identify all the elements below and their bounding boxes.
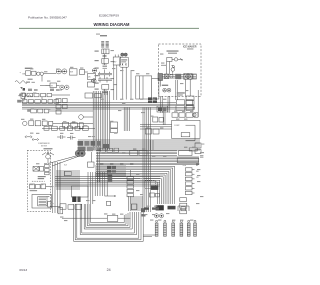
inline box B3 <box>107 201 111 205</box>
ice maker drop pairs <box>176 79 190 100</box>
ice maker connector CN2 <box>175 74 181 79</box>
ice maker sub label <box>187 48 193 49</box>
ice maker connector CN5 <box>193 74 196 79</box>
main horizontal bus <box>22 103 195 109</box>
connector row R4 <box>23 121 93 126</box>
label <box>30 190 37 191</box>
svg-text:WIRING DIAGRAM: WIRING DIAGRAM <box>94 22 131 27</box>
inline connector J10 <box>64 171 71 175</box>
header model number <box>99 13 119 17</box>
ice maker bottom labels <box>177 92 185 95</box>
sensor TH1 <box>26 82 57 88</box>
wire bundle <box>124 108 129 132</box>
connector P3 <box>156 205 164 210</box>
label <box>64 165 67 167</box>
connector chain CH1 <box>42 126 95 130</box>
wire drop <box>41 75 43 82</box>
harness top label <box>100 35 107 36</box>
svg-text:COMP: COMP <box>174 125 180 127</box>
harness label columns <box>101 41 109 47</box>
wire <box>166 59 179 74</box>
wire <box>104 89 107 95</box>
module M4 <box>158 74 163 87</box>
harness cross lines <box>95 166 126 176</box>
wire <box>114 65 117 100</box>
lamp L4 <box>65 85 69 89</box>
relay K3 <box>177 100 193 105</box>
compressor label <box>38 143 50 147</box>
terminal board TB3 <box>177 158 198 167</box>
defrost timer K5 <box>33 167 39 172</box>
svg-text:SW: SW <box>70 72 73 74</box>
svg-text:COMPRESSOR: COMPRESSOR <box>38 143 50 145</box>
connector chain CH3 <box>50 204 81 210</box>
capacitor C2 <box>67 136 75 140</box>
plug connector PC5 <box>187 220 190 236</box>
bracket <box>186 125 196 141</box>
connector T-bar J5 <box>98 70 112 79</box>
ice maker interior labels <box>161 65 166 66</box>
aux box B1 <box>58 208 63 214</box>
connector stack CS1 <box>107 166 116 182</box>
chain bottom bits <box>103 91 108 93</box>
stack J13 <box>180 198 187 214</box>
fan motor M3 <box>120 53 129 67</box>
svg-text:MOTOR: MOTOR <box>41 145 48 147</box>
lamp L0b <box>40 72 56 75</box>
connector P4 <box>168 206 176 210</box>
left mini bundle <box>53 162 61 213</box>
connector J8 <box>102 85 109 90</box>
svg-text:24: 24 <box>107 268 111 272</box>
harness bundle mid <box>88 172 107 204</box>
compressor CP1 <box>172 120 200 138</box>
harness bundle drop <box>143 108 151 213</box>
harness nested corners <box>96 166 175 204</box>
connector row R1 <box>19 93 70 97</box>
connector row R2 <box>17 100 58 104</box>
right edge marks <box>200 144 204 157</box>
ice maker connector CN4 <box>188 74 192 80</box>
lower horizontal bus <box>78 140 200 150</box>
ice maker bus <box>160 74 196 78</box>
connector housing CN1 <box>72 186 89 197</box>
label <box>38 176 46 179</box>
relay K7 <box>151 185 159 190</box>
lamp L2 <box>62 69 67 74</box>
terminal T1 <box>25 136 32 138</box>
inline connector J9 <box>153 117 164 122</box>
inline box B5 <box>88 162 95 167</box>
thermostat TH2 <box>167 57 183 61</box>
right small boxes <box>195 143 201 154</box>
run capacitor C3 <box>145 129 159 134</box>
svg-text:TH: TH <box>51 86 54 88</box>
switch S4 <box>92 79 96 83</box>
svg-text:09/13: 09/13 <box>19 268 27 272</box>
connector J3 <box>102 59 109 64</box>
harness bundle left <box>57 170 79 190</box>
wire pair <box>92 152 100 182</box>
connector block CB1 <box>148 97 157 103</box>
title WIRING DIAGRAM <box>94 22 131 27</box>
svg-text:E23BC78IPS9: E23BC78IPS9 <box>99 13 119 17</box>
condenser fan motor M6 <box>48 150 85 166</box>
wire drops <box>151 140 154 150</box>
chain ticks <box>103 55 107 56</box>
harness bus lines <box>55 177 160 187</box>
terminal block TB1 <box>25 68 37 80</box>
control box U2 <box>32 195 52 209</box>
center vertical bus <box>93 91 109 150</box>
wire color labels <box>21 54 203 222</box>
ice maker connector CN2b <box>165 74 169 79</box>
connector T-bar J7 <box>98 77 112 83</box>
svg-text:WH: WH <box>196 171 200 173</box>
svg-text:OR: OR <box>196 177 199 179</box>
dashes <box>32 180 45 182</box>
connector J2 <box>102 49 109 54</box>
connector column J12 <box>185 168 194 195</box>
svg-text:DS: DS <box>88 77 91 79</box>
control enclosure dashed <box>27 148 52 212</box>
cord coil G1 <box>18 88 32 99</box>
header rule <box>19 27 199 29</box>
ice maker drop wires <box>161 96 170 113</box>
svg-text:4-5b: 4-5b <box>183 165 186 167</box>
lamp L3 <box>60 85 64 89</box>
junction Y1 <box>42 152 54 164</box>
chain bits <box>103 65 108 68</box>
relay cluster K8 <box>157 106 168 112</box>
ice maker connector CN3 <box>184 74 188 80</box>
note box <box>145 181 156 189</box>
svg-text:WV: WV <box>113 62 117 64</box>
motor label <box>162 85 168 86</box>
connector row R3 <box>27 109 93 113</box>
svg-text:ICE MAKER: ICE MAKER <box>183 46 197 49</box>
overload OL1 <box>79 115 93 120</box>
relay K4 <box>176 106 193 111</box>
inline box B2 <box>62 215 131 221</box>
ice maker enclosure <box>159 44 202 96</box>
wire <box>197 90 199 117</box>
connector strip J11 <box>127 170 134 204</box>
row marks above R1 <box>28 89 59 91</box>
inline box B4 <box>131 204 145 212</box>
connector row R6 <box>100 148 119 152</box>
plug connector PC6 <box>194 220 197 236</box>
connector cluster CC1 <box>56 99 67 115</box>
control stack U1 <box>186 96 196 117</box>
ice maker label <box>183 46 197 49</box>
defrost heater H2 <box>63 122 78 127</box>
ice maker note <box>167 50 179 53</box>
module M1 <box>80 70 89 75</box>
connector P2 <box>72 196 80 202</box>
lamp L0a <box>37 72 40 75</box>
svg-text:BK: BK <box>196 165 199 167</box>
thermostat TH3 <box>79 123 83 129</box>
svg-text:⌁: ⌁ <box>20 72 22 75</box>
wire <box>123 67 131 99</box>
harness labels right <box>111 50 114 90</box>
harness stub <box>143 235 156 237</box>
plug connector PC3 <box>172 220 175 236</box>
row drops <box>25 97 43 100</box>
terminal board TB2 <box>179 148 198 156</box>
top stray labels <box>96 34 100 35</box>
ice maker pivot <box>170 74 173 77</box>
drop bundle upper <box>128 196 142 211</box>
terminal mark <box>142 214 146 217</box>
heater H1 <box>171 65 175 74</box>
power cord plug P1 <box>15 72 28 90</box>
header publication number <box>28 16 67 20</box>
door switch S2 <box>88 74 96 83</box>
wire <box>103 54 105 65</box>
wire bundle <box>163 108 165 125</box>
capacitor C1 <box>57 135 65 139</box>
labels <box>196 165 200 179</box>
switch S3 <box>92 68 96 72</box>
relay K1 <box>85 93 101 98</box>
plug connector PC1 <box>155 220 158 236</box>
duct box D2 <box>152 78 159 99</box>
connector row R5 <box>172 113 198 117</box>
terminal T2 <box>32 138 39 140</box>
inline boxes B6 <box>150 193 160 197</box>
upper grid lines <box>96 151 199 165</box>
water valve V1 <box>113 55 121 66</box>
wire arrow <box>105 195 117 197</box>
lamp L1 <box>56 69 61 74</box>
svg-text:8-8: 8-8 <box>64 165 67 167</box>
svg-text:Publication No. 5995581047: Publication No. 5995581047 <box>28 16 67 20</box>
connector row R7 <box>130 150 147 155</box>
module M2 <box>88 82 95 87</box>
junction box JB1 <box>111 122 118 133</box>
bracket component <box>178 206 189 211</box>
plug connector PC4 <box>180 220 183 236</box>
labels <box>144 207 159 209</box>
connector chain CH2 <box>30 184 51 189</box>
relay block K2 <box>78 141 110 151</box>
damper control D1 <box>136 76 152 99</box>
defrost timer K6 <box>40 167 44 172</box>
motor M5 <box>163 88 171 92</box>
stack <box>45 165 49 175</box>
harness loop bundle <box>74 204 144 241</box>
wire <box>140 125 172 129</box>
motor M7 <box>154 214 163 218</box>
plug connector PC2 <box>164 220 167 236</box>
switch S1 <box>70 69 78 75</box>
wire <box>46 85 63 90</box>
harness labels left <box>95 51 99 90</box>
